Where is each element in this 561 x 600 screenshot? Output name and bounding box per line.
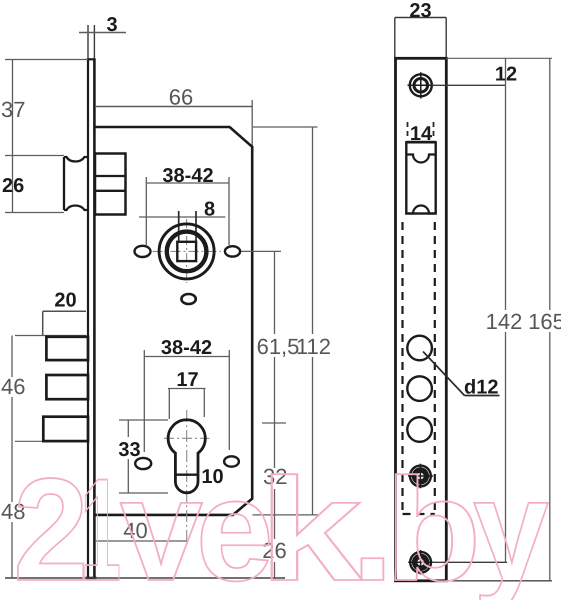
112 dim line — [312, 127, 314, 515]
euro cylinder profile — [168, 420, 205, 493]
61,5 dim line — [274, 251, 276, 423]
33 ticks — [119, 419, 168, 421]
svg-text:112: 112 — [296, 334, 331, 359]
d12 circle 2 — [407, 376, 432, 401]
top screw — [408, 72, 435, 98]
cylinder chord line — [175, 474, 198, 476]
svg-text:2: 2 — [13, 448, 89, 600]
61,5 top tick (hub center line right) — [241, 250, 282, 252]
top extension to 165 — [446, 57, 552, 59]
dim 33 line — [127, 420, 129, 493]
d12 circle 3 — [407, 417, 432, 442]
dim 23 — [395, 18, 446, 59]
svg-text:20: 20 — [54, 290, 76, 312]
svg-text:66: 66 — [169, 85, 193, 110]
extension line top (37 top) — [5, 59, 88, 61]
svg-text:k: k — [259, 448, 363, 600]
26 right dim line — [274, 515, 276, 578]
svg-text:165: 165 — [528, 309, 561, 334]
32 dim line — [274, 423, 276, 515]
12 leader line — [432, 84, 506, 86]
svg-text:61,5: 61,5 — [257, 334, 300, 359]
dim 48 line — [11, 441, 13, 578]
hub inner ring — [167, 232, 207, 272]
faceplate side view — [396, 58, 447, 581]
watermark 21vek.by — [13, 448, 549, 600]
deadbolt bar C — [43, 417, 88, 441]
svg-text:142: 142 — [486, 309, 523, 334]
dim 3 line — [79, 32, 126, 34]
112 top tick — [253, 126, 318, 128]
deadbolt bar B — [46, 375, 88, 399]
hub centerlines — [153, 219, 222, 283]
svg-text:46: 46 — [1, 374, 25, 399]
165 dim line — [549, 58, 551, 581]
hub square hole — [177, 242, 196, 261]
lock body outline — [95, 127, 252, 515]
lock bottom tick extension — [253, 514, 320, 516]
46 bottom extension — [15, 440, 46, 442]
d12 circle 1 — [407, 336, 432, 361]
142 bottom tick — [432, 561, 507, 563]
right screw oval upper — [225, 246, 240, 256]
hub outer circle — [159, 224, 214, 279]
svg-text:37: 37 — [1, 97, 25, 122]
left screw oval lower — [135, 458, 151, 469]
dim 38-42 upper — [146, 177, 229, 245]
deadbolt bar A — [46, 337, 88, 360]
svg-text:23: 23 — [409, 0, 431, 22]
svg-text:1: 1 — [80, 448, 121, 600]
svg-text:17: 17 — [176, 369, 198, 391]
small oval below hub — [181, 294, 195, 304]
dashed cutout slot — [403, 222, 435, 514]
dim 17 — [168, 389, 206, 420]
latch side view — [406, 142, 435, 213]
dim 20 — [43, 310, 86, 312]
dim 38-42 lower — [144, 350, 229, 452]
svg-text:26: 26 — [2, 175, 24, 197]
svg-text:v: v — [120, 448, 203, 600]
left screw oval upper — [135, 246, 151, 257]
svg-text:y: y — [473, 448, 549, 600]
latch housing block behind faceplate — [95, 154, 126, 215]
bottom screw — [408, 550, 433, 575]
right screw oval lower — [224, 456, 239, 466]
bottom extension line — [5, 577, 285, 579]
bottom extension to 165 — [446, 580, 552, 582]
dim 40 — [96, 540, 187, 542]
cylinder centerlines — [164, 410, 210, 543]
svg-text:38-42: 38-42 — [162, 165, 213, 187]
svg-text:d12: d12 — [464, 377, 498, 399]
svg-text:8: 8 — [204, 199, 215, 221]
142 dim line — [505, 58, 507, 562]
svg-text:b: b — [385, 448, 481, 600]
dim 8 — [139, 216, 225, 218]
dim 37 line — [5, 60, 64, 156]
dim 14 — [406, 141, 435, 143]
svg-text:38-42: 38-42 — [161, 337, 212, 359]
faceplate front (double vertical line) — [86, 59, 97, 578]
svg-text:3: 3 — [106, 14, 117, 36]
d12 leader — [423, 352, 465, 396]
dim 66 line — [95, 100, 252, 146]
dim 3 extension lines above faceplate — [88, 25, 94, 59]
dim 26 (latch height) — [5, 156, 64, 213]
dim 46 line — [11, 336, 13, 442]
tick at y 423 — [262, 422, 286, 424]
46 top extension — [15, 335, 86, 337]
latch bolt front — [64, 157, 88, 210]
mid screw — [408, 464, 433, 489]
